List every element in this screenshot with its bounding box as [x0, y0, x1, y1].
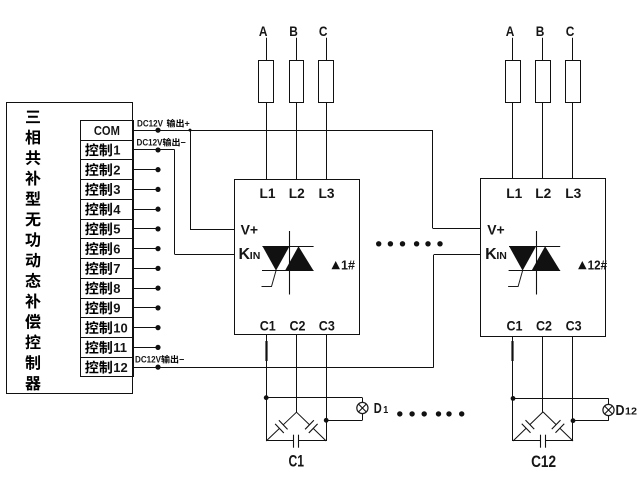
wire lamp feed 2 (D1)	[326, 414, 362, 421]
capacitor C12 right leg	[543, 412, 573, 441]
phase A label (module 1)	[259, 23, 268, 39]
wire fuse A to module 2	[512, 102, 514, 179]
wire lamp feed 2 (D12)	[573, 416, 609, 421]
svg-text:9: 9	[113, 301, 120, 316]
svg-text:1: 1	[383, 405, 388, 416]
fuse A1	[259, 61, 274, 103]
phase B label (module 1)	[289, 23, 298, 39]
wire C1 output of module 1	[266, 334, 268, 441]
capacitor C1 bottom leg	[266, 435, 326, 448]
module 1 pin label KIN	[239, 246, 261, 263]
svg-text:2: 2	[113, 162, 120, 177]
fuse C1	[319, 61, 334, 103]
svg-text:DC12V: DC12V	[135, 355, 161, 365]
wire C3 output of module 1	[326, 334, 328, 441]
wire stub 控制7	[134, 266, 161, 271]
svg-text:B: B	[536, 23, 545, 39]
svg-text:L2: L2	[535, 185, 551, 201]
capacitor C1 right leg	[297, 412, 327, 441]
module 12 pin label KIN	[485, 246, 507, 263]
wire fuse B to module 2	[542, 102, 544, 179]
wire stub 控制8	[134, 286, 161, 291]
wire stub 控制9	[134, 305, 161, 310]
svg-text:C12: C12	[531, 452, 556, 471]
svg-text:11: 11	[113, 340, 127, 355]
wire fuse A to module 1	[266, 102, 268, 179]
svg-text:C1: C1	[289, 452, 305, 471]
indicator lamp D1	[357, 402, 368, 413]
module 12 terminal labels L1 L2 L3	[506, 185, 581, 201]
triac symbol inside module 12	[508, 231, 560, 295]
wire DC12V output+ from COM (horizontal bus)	[134, 130, 434, 132]
svg-text:C1: C1	[260, 318, 276, 334]
label D12	[616, 402, 638, 419]
svg-text:10: 10	[113, 320, 127, 335]
svg-text:COM: COM	[94, 123, 120, 138]
fuse B2	[536, 61, 551, 103]
wire C3 output of module 12	[572, 336, 574, 441]
wire fuse C to module 2	[572, 102, 574, 179]
terminal COM label	[94, 123, 120, 138]
svg-text:K: K	[239, 246, 251, 263]
phase A label (module 2)	[506, 23, 515, 39]
junction dot on COM stub	[155, 128, 160, 133]
svg-text:C: C	[566, 23, 575, 39]
svg-text:C2: C2	[536, 318, 552, 334]
svg-text:D: D	[616, 402, 625, 419]
wire stub 控制2	[134, 167, 161, 172]
terminal 控制10 label	[85, 320, 128, 335]
label C1 (capacitor bank)	[289, 452, 305, 471]
fuse B1	[290, 61, 304, 103]
svg-text:C2: C2	[290, 318, 306, 334]
svg-text:C1: C1	[507, 318, 523, 334]
capacitor C1 left leg	[266, 412, 296, 441]
wire lamp feed 1 (D12)	[513, 398, 609, 404]
wire lamp feed 1 (D1)	[266, 398, 362, 403]
svg-text:A: A	[506, 23, 515, 39]
svg-text:V+: V+	[241, 222, 259, 238]
module 12 pin label V+	[487, 222, 505, 238]
svg-text:+: +	[185, 119, 190, 129]
ellipsis dots between capacitor banks	[397, 411, 464, 416]
svg-text:L1: L1	[506, 185, 522, 201]
ellipsis dots between modules	[376, 241, 443, 246]
phase C label (module 1)	[319, 23, 328, 39]
svg-text:12: 12	[625, 407, 637, 418]
wire stub 控制11	[134, 345, 161, 350]
junction dot lamp feed 2 (D1)	[324, 418, 329, 423]
svg-text:12#: 12#	[588, 257, 608, 272]
wire C2 output of module 12	[542, 336, 544, 412]
svg-text:K: K	[485, 246, 497, 263]
svg-text:A: A	[259, 23, 268, 39]
label C12 (capacitor bank)	[531, 452, 556, 471]
svg-text:4: 4	[113, 202, 121, 217]
svg-text:C: C	[319, 23, 328, 39]
terminal 控制2 label	[85, 162, 120, 177]
label DC12V输出- (top)	[137, 138, 186, 148]
fuse A2	[506, 61, 521, 103]
svg-text:C3: C3	[319, 318, 335, 334]
junction node A (V+ branch)	[189, 129, 192, 132]
module 1 terminal labels C1 C2 C3	[260, 318, 335, 334]
wire phase B to fuse (module 2)	[542, 38, 544, 60]
svg-text:−: −	[179, 355, 184, 365]
svg-text:DC12V: DC12V	[137, 119, 163, 129]
wire stub 控制3	[134, 187, 161, 192]
svg-text:1: 1	[113, 143, 120, 158]
terminal 控制12 label	[85, 360, 128, 375]
wire fuse B to module 1	[296, 102, 298, 179]
junction dot lamp feed 1 (D12)	[511, 396, 516, 401]
terminal 控制1 label	[85, 143, 120, 158]
junction dot on 控制1 stub	[155, 147, 160, 152]
terminal 控制6 label	[85, 241, 120, 256]
module 1 terminal labels L1 L2 L3	[260, 185, 335, 201]
module number label 12#	[578, 257, 608, 272]
module 1 pin label V+	[241, 222, 259, 238]
label D1	[374, 401, 389, 417]
label DC12V 输出+	[137, 119, 190, 129]
wire V+ branch to module 2	[433, 130, 482, 228]
capacitor C12 bottom leg	[513, 435, 573, 448]
wire stub 控制4	[134, 207, 161, 212]
terminal table of controller	[80, 121, 133, 377]
terminal 控制7 label	[85, 261, 120, 276]
module number label 1#	[332, 257, 356, 272]
wire phase B to fuse (module 1)	[296, 38, 298, 60]
wire stub 控制10	[134, 325, 161, 330]
wire stub 控制6	[134, 246, 161, 251]
terminal 控制4 label	[85, 202, 121, 217]
phase C label (module 2)	[566, 23, 575, 39]
svg-text:5: 5	[113, 222, 120, 237]
svg-text:L3: L3	[565, 185, 581, 201]
terminal 控制5 label	[85, 222, 120, 237]
capacitor C12 left leg	[513, 412, 543, 441]
svg-text:1#: 1#	[341, 257, 356, 272]
wire fuse C to module 1	[326, 102, 328, 179]
phase B label (module 2)	[536, 23, 545, 39]
triac symbol inside module 1	[262, 231, 314, 295]
junction dot lamp feed 2 (D12)	[571, 418, 576, 423]
svg-text:DC12V: DC12V	[137, 138, 163, 148]
wire 控制1 to module 1 KIN	[134, 150, 235, 255]
indicator lamp D12	[603, 404, 614, 415]
svg-text:7: 7	[113, 261, 120, 276]
wire phase C to fuse (module 1)	[326, 38, 328, 60]
junction dot on 控制12 stub	[155, 365, 160, 370]
svg-text:L1: L1	[260, 185, 276, 201]
svg-text:6: 6	[113, 241, 120, 256]
wire phase A to fuse (module 2)	[512, 38, 514, 60]
svg-text:IN: IN	[250, 250, 260, 262]
svg-text:8: 8	[113, 281, 120, 296]
wire C1 output of module 12	[512, 336, 514, 441]
terminal 控制8 label	[85, 281, 120, 296]
wire V+ branch to module 1	[190, 130, 235, 229]
svg-text:V+: V+	[487, 222, 505, 238]
terminal 控制3 label	[85, 182, 120, 197]
controller outer box (three-phase reactive power compensation controller)	[7, 103, 133, 394]
controller title text (vertical)	[25, 111, 41, 391]
thyristor module U1 box	[235, 180, 360, 335]
svg-text:3: 3	[113, 182, 120, 197]
module 12 terminal labels C1 C2 C3	[507, 318, 582, 334]
wire phase A to fuse (module 1)	[266, 38, 268, 60]
thyristor module U12 box	[481, 179, 606, 337]
fuse C2	[566, 61, 581, 103]
wire stub 控制5	[134, 226, 161, 231]
wire 控制12 to module 2 KIN	[134, 255, 482, 368]
terminal 控制11 label	[85, 340, 127, 355]
svg-text:L3: L3	[319, 185, 335, 201]
junction dot lamp feed 1 (D1)	[264, 395, 269, 400]
svg-text:B: B	[289, 23, 298, 39]
svg-text:D: D	[374, 401, 382, 417]
terminal 控制9 label	[85, 301, 120, 316]
svg-text:L2: L2	[289, 185, 305, 201]
svg-text:12: 12	[113, 360, 127, 375]
wire phase C to fuse (module 2)	[572, 38, 574, 60]
label DC12V输出- (bottom)	[135, 355, 184, 365]
wire C2 output of module 1	[296, 334, 298, 412]
svg-text:IN: IN	[496, 250, 507, 262]
svg-text:−: −	[181, 138, 186, 148]
svg-text:C3: C3	[566, 318, 582, 334]
